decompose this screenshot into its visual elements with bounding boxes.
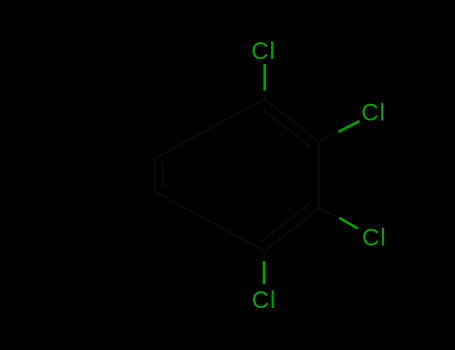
dark half of bond C3-Cl3	[319, 209, 339, 219]
dark half of bond C1-Cl1	[264, 90, 266, 99]
double bond inner line C1-C2	[263, 110, 309, 146]
benzene ring edge C6-C1 (upper-left to top)	[155, 99, 265, 159]
benzene ring edge C3-C4 (lower-right to bottom)	[265, 209, 320, 252]
svg-text:Cl: Cl	[362, 224, 387, 251]
svg-text:Cl: Cl	[251, 38, 276, 65]
benzene ring edge C5-C6 (left vertical)	[154, 159, 156, 192]
green half of bond C4-Cl4 (bottom)	[263, 261, 266, 284]
double bond inner line C3-C4	[263, 204, 309, 240]
green half of bond C1-Cl1 (top)	[263, 64, 266, 91]
svg-text:Cl: Cl	[252, 287, 277, 314]
benzene ring edge C2-C3 (right vertical)	[318, 142, 320, 209]
double bond inner line C5-C6	[162, 163, 164, 187]
benzene ring edge C1-C2 (top to upper-right)	[265, 99, 320, 142]
dark half of bond C4-Cl4	[263, 251, 266, 261]
dark half of bond C2-Cl2	[319, 132, 339, 142]
benzene ring edge C4-C5 (bottom to lower-left)	[155, 192, 265, 252]
svg-text:Cl: Cl	[361, 99, 386, 126]
green half of bond C3-Cl3 (lower right)	[339, 218, 358, 229]
green half of bond C2-Cl2 (upper right)	[339, 121, 360, 132]
